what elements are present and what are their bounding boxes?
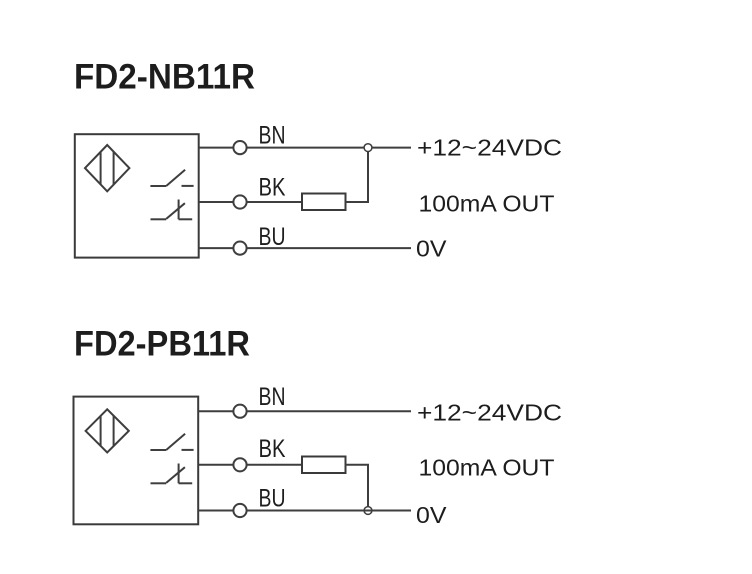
NO contact symbol bbox=[150, 170, 193, 186]
wire BN from body to terminal bbox=[198, 410, 233, 412]
sensor head symbol (diamond with two chords) bbox=[86, 409, 129, 452]
terminal BU bbox=[233, 242, 246, 255]
svg-text:+12~24VDC: +12~24VDC bbox=[417, 400, 562, 426]
svg-text:BN: BN bbox=[259, 383, 286, 411]
svg-text:FD2-NB11R: FD2-NB11R bbox=[74, 58, 255, 97]
wire BU terminal to 0V bbox=[247, 247, 411, 249]
wire BK from body to terminal bbox=[199, 201, 234, 203]
svg-text:FD2-PB11R: FD2-PB11R bbox=[74, 325, 250, 364]
terminal BK bbox=[233, 195, 246, 208]
svg-text:BN: BN bbox=[259, 122, 286, 150]
junction node on +V line bbox=[364, 144, 372, 152]
wire BU from body to terminal bbox=[199, 247, 234, 249]
junction node on 0V line bbox=[364, 507, 372, 515]
terminal BK bbox=[233, 458, 246, 471]
terminal BU bbox=[233, 504, 246, 517]
wire BU terminal to 0V bbox=[247, 510, 411, 512]
NO contact symbol bbox=[150, 434, 193, 450]
svg-text:0V: 0V bbox=[416, 236, 447, 262]
svg-text:100mA OUT: 100mA OUT bbox=[419, 455, 555, 481]
wire BU from body to terminal bbox=[198, 510, 233, 512]
NC contact symbol bbox=[151, 464, 193, 484]
NC contact symbol bbox=[151, 200, 193, 220]
svg-text:100mA OUT: 100mA OUT bbox=[419, 191, 555, 217]
svg-text:BU: BU bbox=[259, 485, 286, 513]
wire BN terminal to +12~24VDC bbox=[247, 410, 411, 412]
wire BN terminal to +12~24VDC bbox=[247, 147, 411, 149]
svg-text:BK: BK bbox=[259, 174, 286, 202]
sensor head symbol (diamond with two chords) bbox=[85, 145, 129, 191]
wire BK terminal to load bbox=[247, 464, 302, 466]
svg-text:BK: BK bbox=[259, 435, 286, 463]
load resistor (PB11R) bbox=[302, 457, 346, 474]
wire load to junction riser bbox=[346, 152, 369, 202]
svg-text:+12~24VDC: +12~24VDC bbox=[417, 134, 562, 160]
load resistor (NB11R) bbox=[302, 194, 346, 211]
wire BN from body to terminal bbox=[199, 147, 234, 149]
terminal BN bbox=[233, 405, 246, 418]
terminal BN bbox=[233, 141, 246, 154]
wire BK terminal to load bbox=[247, 201, 302, 203]
wire BK from body to terminal bbox=[198, 464, 233, 466]
sensor body U2 (FD2-PB11R) bbox=[74, 397, 199, 525]
svg-text:BU: BU bbox=[259, 223, 286, 251]
wire load to junction dropper bbox=[346, 465, 369, 507]
svg-text:0V: 0V bbox=[416, 502, 447, 528]
sensor body U1 (FD2-NB11R) bbox=[75, 134, 199, 257]
